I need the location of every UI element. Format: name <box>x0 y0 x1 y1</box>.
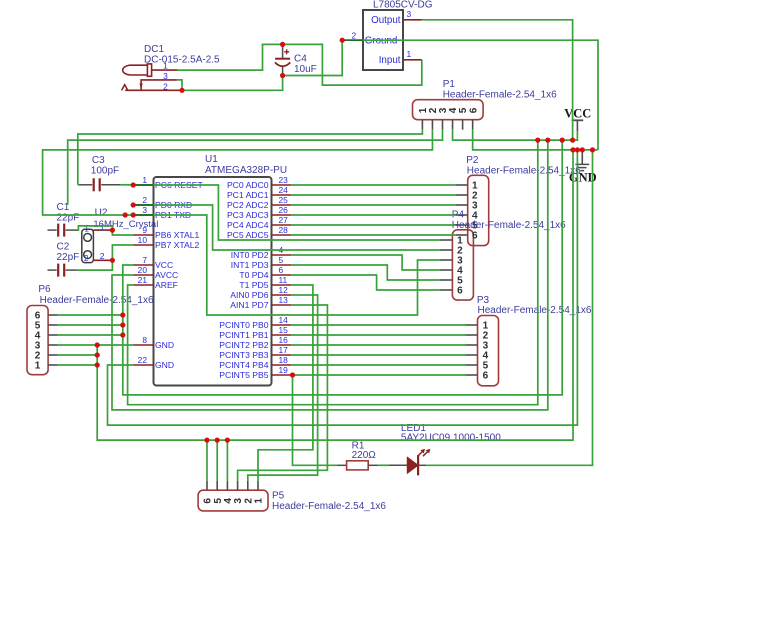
svg-text:AREF: AREF <box>155 280 178 290</box>
svg-text:P5: P5 <box>272 491 285 502</box>
svg-text:INT1 PD3: INT1 PD3 <box>231 260 269 270</box>
svg-text:10uF: 10uF <box>294 64 317 75</box>
svg-text:2: 2 <box>163 81 168 91</box>
svg-text:16: 16 <box>279 335 289 345</box>
svg-text:22pF: 22pF <box>57 252 80 263</box>
svg-text:21: 21 <box>138 275 148 285</box>
svg-text:26: 26 <box>279 205 289 215</box>
svg-text:2: 2 <box>142 195 147 205</box>
svg-text:2: 2 <box>100 251 105 261</box>
svg-text:6: 6 <box>483 371 489 382</box>
svg-text:GND: GND <box>155 360 174 370</box>
svg-text:3: 3 <box>142 205 147 215</box>
svg-text:PB6 XTAL1: PB6 XTAL1 <box>155 230 199 240</box>
svg-text:C3: C3 <box>92 155 105 166</box>
svg-text:INT0 PD2: INT0 PD2 <box>231 250 269 260</box>
svg-text:3: 3 <box>407 9 412 19</box>
svg-text:DC-015-2.5A-2.5: DC-015-2.5A-2.5 <box>144 55 220 66</box>
svg-text:PCINT3 PB3: PCINT3 PB3 <box>219 350 268 360</box>
svg-text:VCC: VCC <box>155 260 173 270</box>
svg-text:23: 23 <box>279 175 289 185</box>
svg-text:PC5 ADC5: PC5 ADC5 <box>227 230 269 240</box>
svg-text:PC2 ADC2: PC2 ADC2 <box>227 200 269 210</box>
svg-text:PC1 ADC1: PC1 ADC1 <box>227 190 269 200</box>
svg-text:1: 1 <box>100 222 105 232</box>
svg-text:25: 25 <box>279 195 289 205</box>
svg-text:6: 6 <box>457 286 463 297</box>
svg-text:GND: GND <box>155 340 174 350</box>
svg-text:PCINT4 PB4: PCINT4 PB4 <box>219 360 268 370</box>
svg-text:Header-Female-2.54_1x6: Header-Female-2.54_1x6 <box>467 166 581 177</box>
svg-text:P2: P2 <box>466 155 479 166</box>
svg-text:VCC: VCC <box>564 106 591 120</box>
svg-text:20: 20 <box>138 265 148 275</box>
svg-text:T0 PD4: T0 PD4 <box>239 270 268 280</box>
svg-text:Header-Female-2.54_1x6: Header-Female-2.54_1x6 <box>452 220 566 231</box>
svg-text:PC4 ADC4: PC4 ADC4 <box>227 220 269 230</box>
svg-text:100pF: 100pF <box>91 166 119 177</box>
svg-text:19: 19 <box>279 365 289 375</box>
svg-text:24: 24 <box>279 185 289 195</box>
svg-text:8: 8 <box>142 335 147 345</box>
svg-text:L7805CV-DG: L7805CV-DG <box>373 0 433 10</box>
svg-text:10: 10 <box>138 235 148 245</box>
svg-text:17: 17 <box>279 345 289 355</box>
svg-text:2: 2 <box>352 31 357 41</box>
svg-text:AVCC: AVCC <box>155 270 178 280</box>
svg-text:U1: U1 <box>205 154 218 165</box>
svg-text:1: 1 <box>142 175 147 185</box>
svg-text:6: 6 <box>468 107 479 113</box>
svg-text:12: 12 <box>279 285 289 295</box>
svg-text:PCINT0 PB0: PCINT0 PB0 <box>219 320 268 330</box>
svg-text:2: 2 <box>84 254 89 263</box>
svg-text:P6: P6 <box>38 284 51 295</box>
svg-text:Header-Female-2.54_1x6: Header-Female-2.54_1x6 <box>272 501 386 512</box>
svg-text:22: 22 <box>138 355 148 365</box>
svg-text:AIN0 PD6: AIN0 PD6 <box>230 290 268 300</box>
svg-text:7: 7 <box>142 255 147 265</box>
svg-text:PC3 ADC3: PC3 ADC3 <box>227 210 269 220</box>
svg-text:PCINT2 PB2: PCINT2 PB2 <box>219 340 268 350</box>
svg-text:ATMEGA328P-PU: ATMEGA328P-PU <box>205 165 287 176</box>
svg-text:P1: P1 <box>443 79 456 90</box>
svg-text:Output: Output <box>371 15 401 26</box>
svg-text:PCINT1 PB1: PCINT1 PB1 <box>219 330 268 340</box>
svg-text:14: 14 <box>279 315 289 325</box>
svg-text:1: 1 <box>407 49 412 59</box>
svg-text:11: 11 <box>279 275 288 285</box>
svg-text:PCINT5 PB5: PCINT5 PB5 <box>219 370 268 380</box>
svg-text:27: 27 <box>279 215 289 225</box>
svg-text:Header-Female-2.54_1x6: Header-Female-2.54_1x6 <box>40 295 154 306</box>
svg-text:28: 28 <box>279 225 289 235</box>
svg-text:AIN1 PD7: AIN1 PD7 <box>230 300 268 310</box>
svg-text:5: 5 <box>279 255 284 265</box>
svg-text:13: 13 <box>279 295 289 305</box>
svg-text:Header-Female-2.54_1x6: Header-Female-2.54_1x6 <box>478 305 592 316</box>
svg-text:3: 3 <box>163 71 168 81</box>
svg-text:6: 6 <box>472 231 478 242</box>
svg-text:18: 18 <box>279 355 289 365</box>
svg-text:U2: U2 <box>95 208 108 219</box>
svg-text:5AY2UC09 1000-1500: 5AY2UC09 1000-1500 <box>401 433 501 444</box>
svg-text:1: 1 <box>35 361 41 372</box>
svg-text:220Ω: 220Ω <box>352 450 377 461</box>
svg-text:Input: Input <box>379 55 401 66</box>
svg-text:1: 1 <box>254 498 265 504</box>
svg-text:Header-Female-2.54_1x6: Header-Female-2.54_1x6 <box>443 90 557 101</box>
svg-text:PB7 XTAL2: PB7 XTAL2 <box>155 240 199 250</box>
svg-text:DC1: DC1 <box>144 44 164 55</box>
svg-text:T1 PD5: T1 PD5 <box>239 280 268 290</box>
svg-text:15: 15 <box>279 325 289 335</box>
svg-text:PC0 ADC0: PC0 ADC0 <box>227 180 269 190</box>
svg-text:6: 6 <box>279 265 284 275</box>
